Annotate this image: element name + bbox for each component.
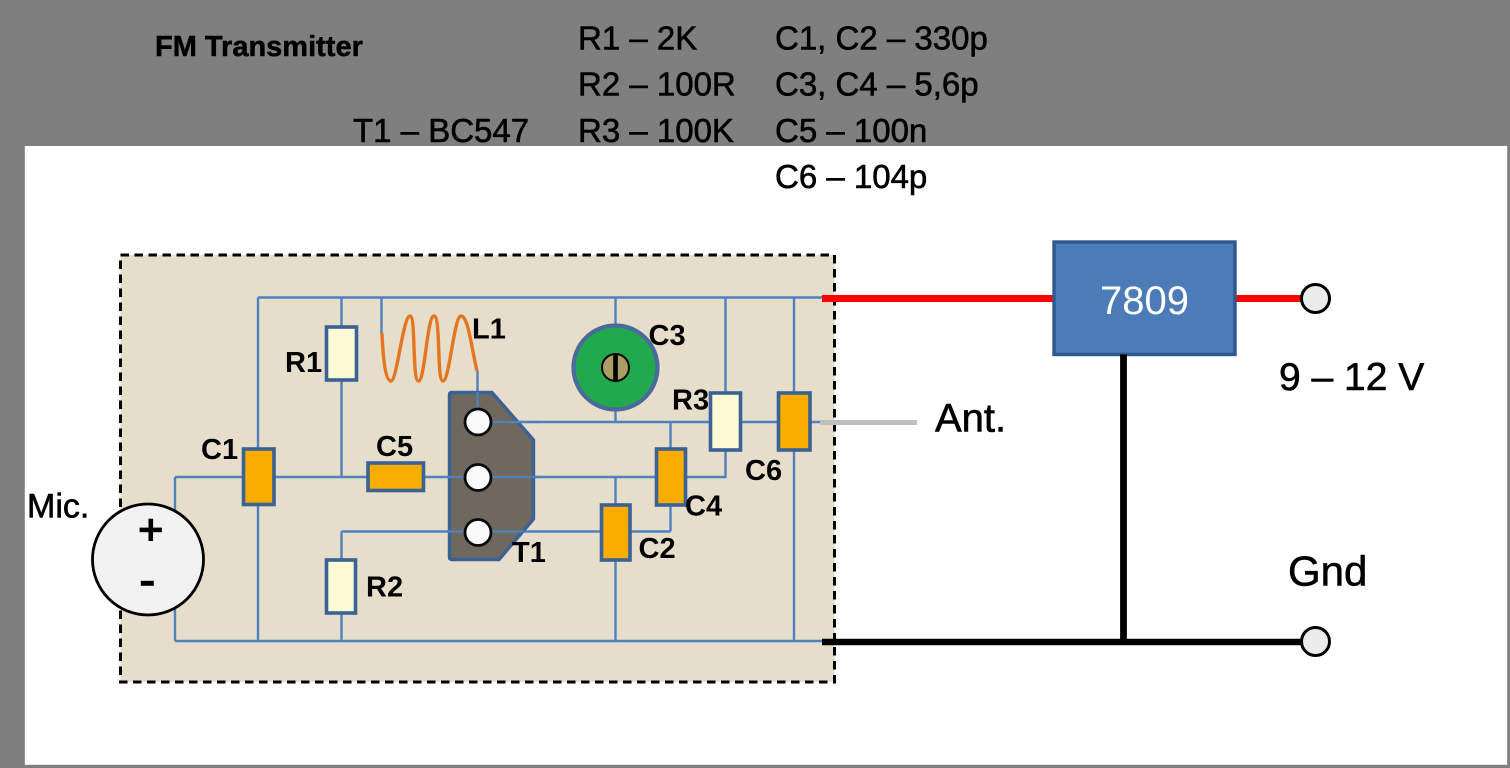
svg-text:C4: C4 [685, 491, 722, 523]
wire collector (T1 top pin to board edge) [478, 421, 822, 423]
wire overlay collector across T1 body [478, 421, 540, 423]
transistor T1 pin 1 (collector) [465, 409, 491, 435]
wire C6 vertical [793, 298, 795, 642]
resistor R1 [327, 327, 357, 380]
svg-text:C6 – 104p: C6 – 104p [775, 158, 927, 195]
svg-text:C3, C4 – 5,6p: C3, C4 – 5,6p [775, 66, 979, 103]
black ground wire [822, 639, 1302, 646]
svg-text:C1: C1 [201, 434, 238, 466]
transistor T1 body [450, 393, 534, 560]
transistor T1 pin 3 (emitter) [465, 520, 491, 546]
wire base (mic to T1 middle pin) [175, 476, 478, 478]
svg-text:7809: 7809 [1100, 279, 1189, 323]
trimmer capacitor C3 [574, 326, 658, 410]
wire R1 top [340, 298, 342, 328]
wire T1 bottom pin rail [342, 530, 671, 532]
wire R2 top [340, 532, 342, 561]
wire emitter right (T1 middle pin to R3 bottom) [478, 450, 726, 477]
wire L1 right drop [476, 371, 478, 422]
svg-text:R1 – 2K: R1 – 2K [578, 19, 697, 56]
capacitor C6 [779, 393, 811, 450]
wire R2 bottom [340, 613, 342, 641]
wire overlay base across T1 body [448, 476, 540, 478]
wire ground rail [175, 640, 823, 642]
svg-text:R1: R1 [285, 347, 322, 379]
wire C4 top [669, 422, 671, 449]
resistor R3 [711, 393, 741, 450]
mic plus sign [140, 528, 162, 533]
svg-text:R2: R2 [366, 572, 403, 604]
red supply wire [822, 295, 1302, 302]
svg-text:C5 – 100n: C5 – 100n [775, 112, 927, 149]
svg-text:Mic.: Mic. [27, 488, 89, 526]
wire R1 bottom [340, 380, 342, 477]
black wire regulator to ground [1120, 355, 1127, 643]
capacitor C1 [244, 449, 275, 505]
svg-text:Gnd: Gnd [1288, 548, 1367, 595]
svg-text:C2: C2 [639, 533, 676, 565]
voltage regulator 7809 [1054, 242, 1235, 355]
wire L1 left drop [380, 298, 382, 334]
svg-text:C5: C5 [376, 431, 413, 463]
inductor L1 coil [382, 316, 477, 381]
wire mic vertical [174, 477, 176, 641]
capacitor C2 [602, 505, 631, 560]
svg-text:Ant.: Ant. [935, 397, 1006, 441]
svg-text:T1: T1 [512, 537, 546, 569]
svg-text:L1: L1 [472, 314, 506, 346]
capacitor C5 [368, 463, 424, 491]
svg-text:T1 – BC547: T1 – BC547 [353, 112, 529, 149]
trimmer C3 screw knob [602, 354, 629, 381]
antenna wire (gray) [820, 420, 917, 425]
circuit board (dashed rectangle) [121, 255, 835, 682]
white slide area [25, 146, 1507, 765]
transistor T1 pin 2 (base) [465, 465, 491, 491]
svg-text:R3 – 100K: R3 – 100K [578, 112, 734, 149]
svg-text:C6: C6 [745, 455, 782, 487]
resistor R2 [327, 560, 356, 613]
wire R3 vertical [724, 298, 726, 394]
microphone symbol [93, 504, 204, 615]
svg-text:FM Transmitter: FM Transmitter [155, 31, 363, 63]
trimmer C3 screw slot [613, 354, 618, 381]
supply terminal [1302, 285, 1330, 313]
mic minus sign [141, 581, 154, 586]
svg-text:R2 – 100R: R2 – 100R [578, 66, 736, 103]
wire C2 top stub [614, 477, 616, 505]
wire C3 vertical [614, 298, 616, 424]
wire overlay L1 drop into top pin [476, 392, 478, 422]
svg-text:R3: R3 [672, 385, 709, 417]
svg-text:C3: C3 [649, 320, 686, 352]
svg-text:C1, C2 – 330p: C1, C2 – 330p [775, 19, 988, 56]
svg-text:9 – 12 V: 9 – 12 V [1279, 356, 1424, 399]
wire C2 bottom stub [614, 560, 616, 641]
wire C4 bottom [669, 505, 671, 532]
wire top rail [258, 296, 823, 298]
wire left vertical [257, 298, 259, 642]
wire overlay emitter across T1 body [448, 530, 524, 532]
capacitor C4 [657, 449, 686, 505]
ground terminal [1302, 628, 1330, 656]
